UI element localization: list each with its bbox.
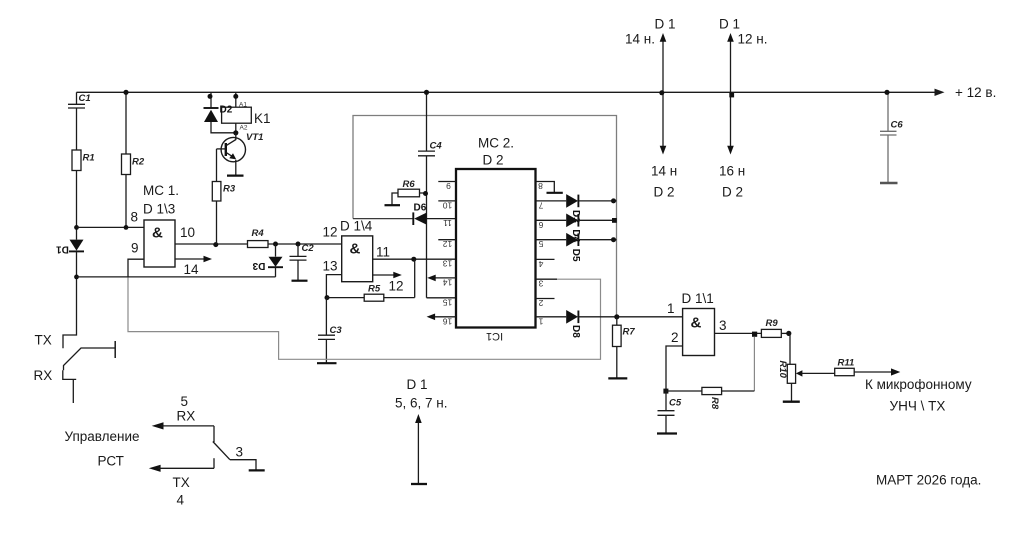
svg-text:TX: TX (35, 333, 52, 348)
node bus junction pin7 (611, 198, 616, 203)
svg-text:D2: D2 (220, 105, 233, 116)
svg-text:9: 9 (131, 241, 139, 256)
node pin8/R2 junction (124, 225, 129, 230)
node K1/D2/collector junction (233, 130, 238, 135)
resistor R2 (122, 154, 131, 175)
svg-text:2: 2 (538, 298, 543, 308)
diode D2 (204, 92, 236, 133)
svg-text:7: 7 (538, 200, 543, 210)
svg-text:16 н: 16 н (719, 164, 745, 179)
wire R4 to gate2 pin12 (268, 243, 342, 245)
pin 16 arrow (427, 314, 456, 327)
resistor R6 (392, 179, 427, 205)
node rail tap 2 arrows (719, 17, 767, 200)
node rail junction R2 (123, 90, 128, 95)
svg-text:10: 10 (443, 200, 453, 210)
svg-text:9: 9 (446, 181, 451, 191)
svg-text:12 н.: 12 н. (738, 32, 768, 47)
svg-text:R8: R8 (709, 397, 720, 410)
svg-text:5: 5 (538, 239, 543, 249)
diode D1 (56, 240, 84, 255)
svg-text:D 1\3: D 1\3 (143, 202, 175, 217)
svg-text:R4: R4 (252, 228, 265, 239)
ground C5 (657, 432, 677, 434)
wire pin3 return path (128, 278, 601, 360)
IC U3 IC1 body (456, 136, 536, 343)
svg-text:4: 4 (177, 493, 185, 508)
svg-text:D 1: D 1 (407, 377, 428, 392)
svg-text:D 1: D 1 (719, 17, 740, 32)
pin 9 stub (438, 181, 456, 183)
svg-text:14 н: 14 н (651, 164, 677, 179)
ground R6 (385, 204, 401, 206)
wire gate output 3 (715, 332, 762, 334)
svg-text:5: 5 (181, 394, 189, 409)
svg-text:D 2: D 2 (483, 153, 504, 168)
svg-text:TX: TX (173, 475, 190, 490)
svg-text:C1: C1 (79, 93, 91, 104)
svg-text:D 2: D 2 (722, 185, 743, 200)
ground R7 (608, 377, 627, 379)
pin 10 stub (438, 200, 456, 202)
svg-text:14: 14 (443, 277, 453, 287)
svg-text:11: 11 (443, 218, 452, 228)
svg-text:К микрофонному: К микрофонному (865, 377, 972, 392)
svg-text:12: 12 (443, 239, 453, 249)
svg-text:D 1: D 1 (655, 17, 676, 32)
node +12V arrow (935, 89, 945, 96)
resistor R5 (327, 259, 415, 301)
svg-text:3: 3 (538, 279, 543, 289)
svg-text:R3: R3 (223, 184, 236, 195)
svg-text:RX: RX (177, 409, 196, 424)
node rail tap 1 arrows (625, 17, 677, 200)
wire gate2 pin 13 (326, 275, 341, 298)
svg-text:R7: R7 (623, 327, 636, 338)
resistor R9 (761, 318, 790, 337)
wire gray bus frame top and right (353, 116, 617, 317)
capacitor C2 (290, 244, 307, 280)
capacitor C4 (418, 92, 456, 297)
svg-text:2: 2 (671, 330, 679, 345)
svg-text:8: 8 (131, 210, 139, 225)
ground VT1 emitter (227, 175, 244, 177)
svg-text:12: 12 (389, 279, 404, 294)
diode D4 on pin 6 (536, 214, 617, 243)
svg-text:MC 1.: MC 1. (143, 183, 179, 198)
pin 14 arrow (427, 275, 456, 288)
pin 3 stub (536, 279, 558, 289)
wire gate1 output 14 arrow (175, 256, 212, 263)
svg-text:14 н.: 14 н. (625, 32, 655, 47)
svg-text:D1: D1 (56, 244, 69, 255)
ground R10 (783, 401, 800, 403)
svg-text:3: 3 (719, 318, 727, 333)
wire R1 to D1 (76, 171, 78, 240)
node R6/C4 junction (423, 191, 428, 196)
potentiometer R10 (777, 333, 835, 401)
svg-text:+ 12 в.: + 12 в. (955, 85, 996, 100)
node D3 junction (273, 242, 278, 247)
node output3 junction (752, 332, 757, 337)
wire gate pin 2 to C5 (666, 346, 683, 391)
svg-text:УНЧ \ ТХ: УНЧ \ ТХ (890, 399, 946, 414)
resistor R4 (248, 241, 269, 248)
wire +12V top rail (77, 91, 937, 93)
svg-text:&: & (350, 241, 361, 258)
svg-text:6: 6 (538, 220, 543, 230)
wire R3 column (216, 149, 218, 244)
svg-text:10: 10 (180, 225, 195, 240)
resistor R7 (613, 317, 636, 378)
svg-text:VT1: VT1 (246, 132, 263, 143)
wire bus bottom segment to D6 (353, 218, 413, 220)
pin 2 stub (536, 298, 555, 308)
capacitor C6 (880, 92, 897, 182)
wire D1-D3 bottom line (77, 276, 276, 278)
svg-text:C3: C3 (330, 325, 343, 336)
diode D3 (252, 244, 283, 277)
ground C6 (880, 182, 898, 184)
svg-text:8: 8 (538, 181, 543, 191)
wire gate2 output 12 arrow (373, 272, 402, 279)
svg-text:МАРТ 2026 года.: МАРТ 2026 года. (876, 473, 981, 488)
diode D5 on pin 5 (536, 233, 617, 262)
svg-text:R2: R2 (132, 157, 145, 168)
svg-text:R9: R9 (766, 318, 779, 329)
svg-text:R6: R6 (403, 179, 416, 190)
node R7 junction (614, 314, 619, 319)
svg-text:&: & (691, 315, 702, 332)
transistor VT1 (217, 132, 264, 175)
wire pin 8 (77, 226, 145, 228)
svg-text:D 1\1: D 1\1 (682, 291, 714, 306)
diode D8 on pin 1 (536, 310, 683, 338)
node D1 bottom junction (74, 275, 79, 280)
svg-text:13: 13 (323, 259, 338, 274)
node pin8 junction on left column (74, 225, 79, 230)
svg-text:РСТ: РСТ (98, 454, 124, 469)
switch S2 control (149, 394, 265, 508)
svg-text:C6: C6 (891, 120, 904, 131)
resistor R1 (72, 150, 81, 171)
svg-text:R5: R5 (368, 284, 381, 295)
node R9/R10 junction (786, 331, 791, 336)
resistor R11 (835, 358, 901, 376)
wire D1 to TX terminal (63, 251, 77, 348)
capacitor C5 (658, 391, 675, 433)
svg-text:5, 6, 7 н.: 5, 6, 7 н. (395, 396, 447, 411)
svg-text:1: 1 (538, 316, 543, 326)
svg-text:15: 15 (443, 297, 453, 307)
diode D6 (413, 203, 426, 226)
relay K1 (222, 92, 271, 133)
svg-text:D 1\4: D 1\4 (340, 219, 373, 234)
svg-text:12: 12 (323, 225, 338, 240)
svg-text:D6: D6 (414, 203, 427, 214)
capacitor C3 (318, 298, 335, 363)
svg-text:C2: C2 (302, 243, 315, 254)
node C5/R8 junction (663, 389, 668, 394)
wire riser to R8 (753, 337, 755, 391)
svg-text:13: 13 (443, 259, 453, 269)
wire pin 9 (128, 259, 144, 277)
node R5/C3 junction (325, 295, 330, 300)
svg-text:3: 3 (236, 445, 244, 460)
pin 12 stub (438, 239, 456, 241)
ground C2 (292, 280, 308, 282)
svg-text:A1: A1 (239, 102, 247, 109)
op-amp U4 gate D1\1 (667, 291, 727, 356)
svg-text:D3: D3 (252, 260, 265, 271)
svg-text:R1: R1 (83, 153, 95, 164)
svg-text:IC1: IC1 (486, 330, 503, 342)
switch S1 TX/RX left (63, 341, 115, 403)
node C2 junction (296, 242, 301, 247)
svg-text:R11: R11 (838, 358, 855, 369)
svg-text:K1: K1 (254, 111, 271, 126)
wire R2 column (125, 92, 127, 227)
svg-text:14: 14 (184, 262, 200, 277)
svg-text:A2: A2 (240, 125, 248, 132)
svg-text:MC 2.: MC 2. (478, 136, 514, 151)
diode D3b on pin 7 (536, 194, 617, 223)
wire gate1 output 10 (175, 243, 248, 245)
svg-text:Управление: Управление (65, 429, 140, 444)
node D2 rail junction (208, 94, 213, 99)
node bus junction pin6 (612, 218, 617, 223)
node C6 rail junction (884, 90, 889, 95)
node output10/R3 junction (213, 242, 218, 247)
resistor R3 (212, 182, 221, 202)
resistor R8 (666, 387, 754, 409)
svg-text:D5: D5 (570, 249, 581, 262)
svg-text:R10: R10 (777, 361, 788, 379)
svg-text:&: & (152, 225, 163, 242)
svg-text:RX: RX (34, 368, 53, 383)
svg-text:C5: C5 (669, 398, 682, 409)
svg-text:C4: C4 (430, 141, 443, 152)
svg-text:1: 1 (667, 301, 675, 316)
ground C3 (317, 362, 337, 364)
node C4 rail junction (424, 90, 429, 95)
op-amp U2 gate MC2 D1\4 (323, 219, 404, 294)
node bottom D1 arrow (395, 377, 447, 484)
node bus junction pin5 (611, 237, 616, 242)
op-amp U1 gate MC1 D1\3 (131, 183, 200, 277)
node K1 rail junction (233, 94, 238, 99)
svg-text:16: 16 (443, 316, 453, 326)
svg-text:D 2: D 2 (654, 185, 675, 200)
node output11/R5 riser junction (411, 257, 416, 262)
wire gate2 output 11 to IC pin13 (373, 258, 456, 260)
capacitor C1 (68, 92, 85, 150)
wire D6 to IC pin11 (427, 218, 457, 220)
svg-text:11: 11 (376, 245, 390, 260)
pin 8 stub and ground (536, 181, 563, 193)
svg-text:4: 4 (538, 259, 543, 269)
svg-text:D8: D8 (570, 325, 581, 338)
pin 4 stub (536, 259, 555, 269)
